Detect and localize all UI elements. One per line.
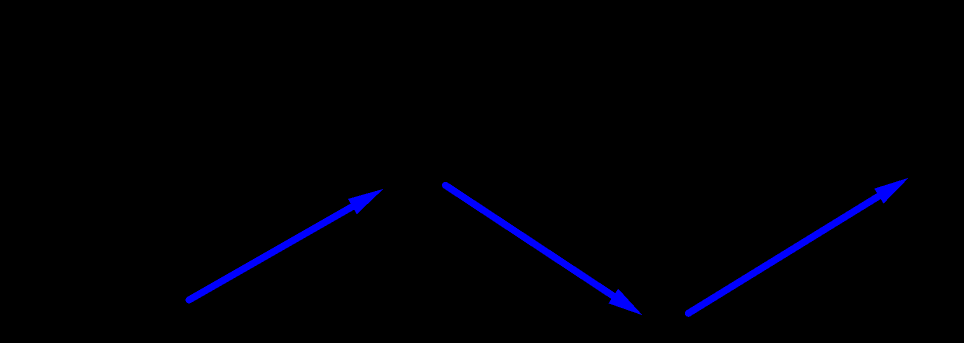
arrow 1 shaft (excitation, up-right): [189, 178, 909, 315]
arrow 2 shaft (electron transfer, down-right): [446, 185, 625, 303]
arrow 1 head: [348, 189, 383, 214]
svg-text:P680*: P680*: [393, 160, 440, 179]
arrow 2 head: [609, 289, 643, 316]
svg-text:P700: P700: [645, 320, 685, 339]
svg-text:P700*: P700*: [912, 160, 959, 179]
svg-text:P680: P680: [150, 297, 190, 316]
arrow 3 shaft (excitation, up-right): [688, 189, 890, 313]
arrow 3 head: [874, 178, 908, 204]
